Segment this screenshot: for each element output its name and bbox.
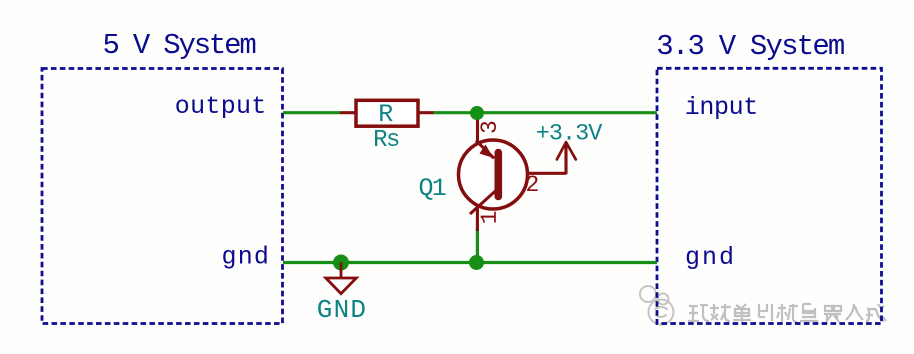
svg-text:Rs: Rs	[373, 127, 399, 154]
svg-text:GND: GND	[317, 295, 367, 325]
svg-text:+3.3V: +3.3V	[536, 121, 602, 148]
svg-text:output: output	[175, 92, 267, 121]
svg-text:5 V System: 5 V System	[103, 29, 256, 62]
svg-text:R: R	[378, 100, 393, 129]
svg-text:3.3 V System: 3.3 V System	[656, 30, 844, 63]
svg-text:gnd: gnd	[685, 243, 736, 272]
svg-text:2: 2	[526, 172, 540, 198]
svg-text:input: input	[685, 93, 758, 122]
svg-text:Q1: Q1	[419, 174, 446, 203]
svg-text:gnd: gnd	[222, 242, 271, 271]
